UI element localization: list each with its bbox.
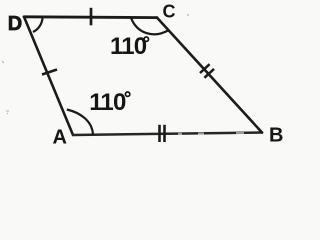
svg-text:C: C	[163, 2, 176, 22]
side DC (top)	[24, 15, 157, 19]
svg-text:B: B	[269, 125, 283, 147]
double tick on AB	[160, 125, 165, 142]
side AB (bottom)	[73, 133, 262, 136]
svg-text:110: 110	[89, 89, 126, 116]
side DA (left)	[24, 17, 73, 135]
stray scan mark left edge	[2, 61, 4, 63]
side CB (right)	[157, 18, 262, 133]
angle arc at C	[131, 18, 168, 34]
single tick on DA	[42, 70, 57, 75]
double tick on CB	[200, 64, 214, 78]
svg-text:A: A	[53, 126, 67, 148]
svg-text:D: D	[8, 13, 22, 35]
degree symbol at C	[144, 37, 148, 41]
scan fade on AB	[178, 132, 244, 136]
angle arc at D	[33, 18, 43, 32]
single tick on DC	[90, 8, 93, 26]
svg-text:110: 110	[110, 33, 147, 60]
degree symbol at A	[125, 92, 129, 96]
angle arc at A	[67, 110, 93, 135]
stray scan mark near C	[187, 14, 189, 16]
stray scan mark bottom left	[6, 111, 9, 114]
